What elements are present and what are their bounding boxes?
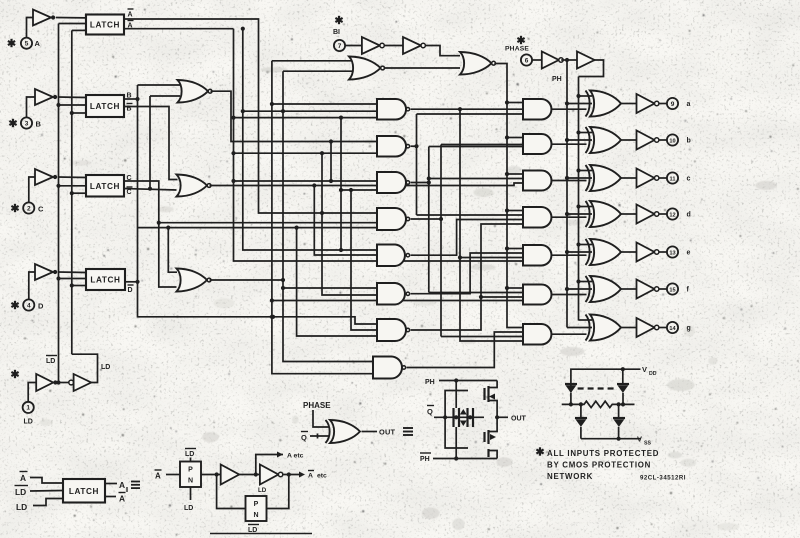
inverter PHASE first <box>542 52 563 69</box>
wire NOR1 output <box>384 67 461 69</box>
wire bus from C-bar vertical <box>149 96 151 189</box>
svg-text:PHASE: PHASE <box>505 46 529 53</box>
wire BI pin to inverter <box>345 45 362 47</box>
wire NOR1 input top <box>272 60 352 62</box>
wire latch A LD input <box>72 29 86 31</box>
nand gate 6 <box>377 283 410 305</box>
nor gate C <box>177 175 212 197</box>
wire input LD pin to inverter <box>28 383 36 402</box>
svg-text:g: g <box>687 325 691 332</box>
wire latch eq output A-bar <box>105 487 127 504</box>
wire PH bus <box>578 77 580 321</box>
label C-bar output <box>127 187 133 196</box>
svg-text:PHASE: PHASE <box>303 401 331 410</box>
svg-text:b: b <box>687 138 691 145</box>
xor gate segment e <box>586 239 622 265</box>
wire PHASE buffer loop <box>579 60 604 77</box>
svg-text:LD: LD <box>185 451 194 458</box>
buffer 1 latch eq <box>221 465 240 485</box>
wire inverter a to pin <box>660 103 668 105</box>
wire OUT tgate <box>495 415 527 422</box>
equivalence sign latch <box>131 482 140 489</box>
svg-text:DD: DD <box>649 371 657 377</box>
wire inverter b to pin <box>660 139 668 141</box>
wire input C pin to inverter <box>29 177 35 202</box>
inverter output e <box>637 243 659 262</box>
asterisk PHASE <box>517 36 524 44</box>
wire inverter D to latch D <box>58 271 86 274</box>
and gate segment g <box>523 324 551 345</box>
nand gate 8 <box>373 357 406 379</box>
wire bus vertical x283 <box>281 71 377 361</box>
pin 5 input A <box>21 38 41 49</box>
label PH <box>552 76 562 83</box>
latch A <box>86 15 124 35</box>
svg-text:LD: LD <box>46 358 55 365</box>
svg-text:d: d <box>687 212 691 219</box>
svg-text:LATCH: LATCH <box>69 487 99 496</box>
wire XOR-c phase stubs <box>565 168 592 180</box>
label PH tgate <box>425 379 435 386</box>
label B-bar output <box>127 104 133 113</box>
wire Q-bar line tgate <box>434 415 484 419</box>
latch D <box>86 269 125 290</box>
label LD latch eq <box>16 502 27 512</box>
svg-text:LATCH: LATCH <box>90 276 120 285</box>
wire bus vertical x351 <box>349 188 377 330</box>
label Q-bar tgate <box>427 406 434 417</box>
svg-text:C: C <box>38 205 44 214</box>
wire inverter A to latch A <box>56 17 86 19</box>
svg-text:LATCH: LATCH <box>90 182 120 191</box>
svg-text:c: c <box>687 176 691 183</box>
wire XOR-a phase stubs <box>565 94 592 106</box>
wire NOR-C output long <box>210 183 524 188</box>
wire NAND6 output net <box>411 253 523 294</box>
svg-text:12: 12 <box>669 212 675 218</box>
asterisk input LD <box>11 370 18 378</box>
wire XOR-b to inverter <box>621 139 637 141</box>
label OUT <box>379 428 395 437</box>
pin 13 output e <box>667 246 691 257</box>
protection diode bottom left <box>575 404 587 438</box>
wire VSS rail <box>581 437 641 441</box>
svg-text:N: N <box>188 478 193 485</box>
label LD-bar latch eq <box>15 486 29 498</box>
pmos transistor tgate <box>485 381 498 418</box>
xor gate segment d <box>586 201 622 227</box>
wire AND-f to XOR <box>551 294 586 296</box>
note line 2 <box>547 461 651 470</box>
inverter output f <box>637 280 659 299</box>
label PHASE <box>505 46 529 53</box>
svg-text:PH: PH <box>552 76 562 83</box>
wire latch A LD-bar input <box>59 23 87 25</box>
svg-text:etc: etc <box>317 473 327 480</box>
wire latch B LD input <box>72 112 86 114</box>
svg-text:A: A <box>20 473 26 483</box>
svg-text:15: 15 <box>669 287 675 293</box>
label PHASE bottom <box>303 401 331 410</box>
pin 4 input D <box>23 299 44 310</box>
svg-text:LD: LD <box>15 487 26 497</box>
wire Q-bar into XOR eq <box>310 434 329 439</box>
svg-text:P: P <box>188 467 193 474</box>
wire tgate left loop <box>445 391 468 449</box>
pin 7 input BI <box>334 40 345 51</box>
wire XOR-g phase stubs <box>567 320 592 328</box>
wire NAND4 input bottom long <box>138 226 378 230</box>
PN box 1 <box>180 462 201 488</box>
label LD-bar above PN1 <box>185 449 196 459</box>
svg-text:PH: PH <box>420 456 430 463</box>
pin 14 output g <box>667 322 691 333</box>
nor gate B <box>178 80 213 103</box>
wire NAND7 output net <box>411 224 523 330</box>
pin 9 output a <box>667 98 691 109</box>
wire PN1 bottom stub <box>190 487 192 500</box>
svg-text:ALL INPUTS PROTECTED: ALL INPUTS PROTECTED <box>547 449 659 458</box>
wire latch eq output A <box>105 480 125 490</box>
wire NAND2 input bottom <box>231 151 377 155</box>
wire bus vertical x322 <box>320 151 377 295</box>
svg-text:A: A <box>155 472 161 481</box>
wire NAND3 output net <box>411 147 523 293</box>
wire BI inverters <box>385 45 404 47</box>
wire inverter c to pin <box>660 177 668 179</box>
asterisk input C <box>11 204 18 212</box>
wire NAND4 input mid long <box>159 222 377 224</box>
wire LD inverter junction <box>58 382 69 384</box>
nand gate 3 <box>377 172 410 193</box>
protection diode top left <box>565 384 577 404</box>
wire PH-bar bus <box>566 60 568 328</box>
svg-text:Q: Q <box>301 433 307 442</box>
wire PHASE pin to inverter <box>532 59 542 61</box>
svg-text:LD: LD <box>24 419 33 426</box>
svg-text:P: P <box>254 501 259 508</box>
wire latch C output C-bar <box>124 187 177 191</box>
and gate segment a <box>523 99 551 120</box>
asterisk input D <box>11 301 18 309</box>
inverter PHASE second <box>577 52 595 69</box>
svg-text:11: 11 <box>670 176 676 182</box>
svg-text:D: D <box>128 287 133 294</box>
and gate segment c <box>523 171 552 191</box>
svg-text:10: 10 <box>669 138 675 144</box>
wire PN1 top stub <box>190 458 192 462</box>
label Q-bar <box>301 432 308 443</box>
wire PN2 feedback left <box>217 475 246 509</box>
label VDD <box>642 365 657 377</box>
svg-text:NETWORK: NETWORK <box>547 472 593 481</box>
equivalence sign XOR <box>403 428 413 435</box>
wire NAND1 output net <box>411 107 523 341</box>
and gate segment e <box>523 245 551 266</box>
svg-text:A: A <box>308 473 313 480</box>
svg-text:LD: LD <box>258 487 267 494</box>
label LD-bar below PN2 <box>248 525 259 535</box>
wire latch D LD-bar input <box>59 278 87 280</box>
pin 3 input B <box>21 117 42 128</box>
wire PN input <box>166 474 180 476</box>
label A-bar output <box>128 21 134 30</box>
label A-bar PN input <box>155 470 162 481</box>
svg-text:BI: BI <box>333 29 340 36</box>
wire BI to NOR2 <box>426 46 460 56</box>
latch B <box>86 95 124 117</box>
and gate segment d <box>523 207 551 228</box>
wire NAND4 output net <box>411 145 523 337</box>
svg-text:BY CMOS PROTECTION: BY CMOS PROTECTION <box>547 461 651 470</box>
label D-bar output <box>128 285 134 294</box>
wire NOR2 output blanking <box>494 64 523 328</box>
wire LD-bar bus <box>56 24 60 385</box>
nand gate 2 <box>377 136 410 157</box>
wire NOR-B output <box>211 91 378 141</box>
wire latch C LD input <box>72 192 86 194</box>
inverter output b <box>637 131 659 150</box>
wire AND-e to XOR <box>551 254 586 256</box>
transmission gate bars <box>454 408 474 427</box>
svg-text:OUT: OUT <box>511 416 527 423</box>
inverter output d <box>637 205 659 224</box>
nand gate 5 <box>377 245 410 267</box>
svg-text:e: e <box>687 250 691 257</box>
svg-text:A: A <box>119 480 125 490</box>
svg-text:OUT: OUT <box>379 428 395 437</box>
xor gate segment a <box>586 91 622 117</box>
svg-text:Q: Q <box>427 407 433 416</box>
wire XOR-g to inverter <box>621 327 637 329</box>
inverter LD second <box>74 374 92 391</box>
wire AND-b to XOR <box>551 143 586 145</box>
svg-text:6: 6 <box>525 57 529 64</box>
wire AND-g to XOR <box>551 333 586 335</box>
svg-text:V: V <box>642 365 647 374</box>
wire NAND1 input bottom <box>234 117 378 119</box>
wire XOR-b phase stubs <box>565 130 592 142</box>
xor equivalent gate <box>326 420 361 443</box>
buffer 2 latch eq <box>260 465 283 485</box>
svg-text:LD: LD <box>16 502 27 512</box>
wire inverter e to pin <box>660 251 668 253</box>
nand gate 7 <box>377 319 410 341</box>
bottom rule line <box>210 533 312 535</box>
label LD-bar <box>46 356 57 366</box>
wire LD buffer loop <box>72 354 98 382</box>
wire VDD rail <box>571 367 641 392</box>
inverter C input buffer <box>35 169 57 185</box>
wire PN2 feedback right <box>267 475 289 509</box>
nor gate 2 <box>460 52 496 75</box>
pin 6 input PHASE <box>521 54 532 65</box>
inverter BI first <box>362 37 384 54</box>
nand gate 4 <box>377 208 410 230</box>
wire latch D LD input <box>72 285 86 287</box>
wire NAND6 input top <box>283 287 377 289</box>
label PH-bar tgate <box>420 453 431 463</box>
latch equivalent box <box>63 479 105 503</box>
nmos transistor tgate <box>485 417 498 458</box>
wire bus vertical x296 <box>295 226 378 337</box>
dashed link protection <box>578 387 617 389</box>
wire NOR1 input bottom <box>283 70 352 72</box>
inverter D input buffer <box>35 264 57 280</box>
note line 1 <box>547 449 659 458</box>
inverter LD first <box>36 374 57 391</box>
svg-text:92CL-34512RI: 92CL-34512RI <box>640 475 686 482</box>
wire buffer2 output <box>283 471 327 480</box>
label VSS <box>637 435 651 447</box>
drawing number <box>640 475 686 482</box>
wire latch B output B to NOR gate <box>124 98 138 100</box>
pin 15 output f <box>667 283 690 294</box>
wire NAND1 input top <box>272 103 377 105</box>
inverter B input buffer <box>35 89 57 105</box>
pin 2 input C <box>23 202 44 213</box>
svg-text:A etc: A etc <box>287 453 304 460</box>
svg-text:A: A <box>119 494 125 504</box>
wire NAND2 output net <box>411 114 523 215</box>
wire latch A output A <box>124 19 377 213</box>
label A output <box>128 9 134 19</box>
wire inverter C to latch C <box>58 176 86 179</box>
wire NOR-B input from C-bar <box>150 95 180 97</box>
wire OR-D input upper <box>168 228 177 273</box>
svg-text:1: 1 <box>26 405 30 412</box>
svg-text:2: 2 <box>27 205 31 212</box>
wire XOR-c to inverter <box>621 177 637 179</box>
nand gate 1 <box>377 99 410 120</box>
wire AND-a to XOR <box>551 108 586 110</box>
svg-text:4: 4 <box>27 302 31 309</box>
label LD buffer output <box>101 364 110 371</box>
wire NOR-D output <box>210 278 286 282</box>
wire XOR eq output <box>362 431 378 433</box>
wire latch eq input A-bar <box>30 478 63 484</box>
inverter BI second <box>403 37 425 54</box>
svg-text:7: 7 <box>338 43 342 50</box>
pin 11 output c <box>667 172 691 183</box>
wire XOR-f to inverter <box>621 288 637 290</box>
label B output <box>127 93 132 100</box>
wire bus vertical x272 <box>270 61 377 374</box>
wire input D pin to inverter <box>29 272 35 299</box>
wire AND-f feed long <box>272 300 523 302</box>
svg-text:B: B <box>36 120 42 129</box>
wire latch B LD-bar input <box>59 104 87 106</box>
wire PH line tgate <box>439 378 497 382</box>
wire latch A output A-bar <box>124 27 377 250</box>
wire inverter f to pin <box>660 288 668 290</box>
wire XOR-d phase stubs <box>565 204 592 216</box>
wire bus vertical x331 <box>329 139 333 183</box>
wire AND-d to XOR <box>551 216 586 218</box>
wire LD bus <box>70 30 74 354</box>
wire NOR-B input from B <box>138 84 181 86</box>
wire A etc tap <box>256 452 304 475</box>
asterisk input B <box>9 119 16 127</box>
wire latch C LD-bar input <box>59 185 87 187</box>
wire XOR-e phase stubs <box>565 242 592 254</box>
wire latch B output B-bar <box>124 107 178 180</box>
note line 3 <box>547 472 593 481</box>
xor gate segment g <box>586 315 622 341</box>
svg-text:V: V <box>637 435 642 444</box>
asterisk input A <box>8 39 15 47</box>
wire PH-bar line tgate <box>433 456 497 460</box>
latch C <box>86 175 124 197</box>
wire NAND8 output net <box>407 332 523 368</box>
svg-text:LATCH: LATCH <box>90 102 120 111</box>
wire PN1 output <box>201 472 221 476</box>
xor gate segment f <box>586 276 622 302</box>
wire bus vertical x314 <box>314 186 377 256</box>
svg-text:9: 9 <box>671 101 675 108</box>
wire latch eq input LD <box>33 499 63 506</box>
svg-text:LD: LD <box>184 505 193 512</box>
inverter A input buffer <box>33 10 55 26</box>
inverter output a <box>637 94 659 113</box>
protection diode top right <box>617 369 629 404</box>
asterisk BI <box>335 16 342 24</box>
svg-text:13: 13 <box>669 250 675 256</box>
svg-text:SS: SS <box>644 441 651 447</box>
label C output <box>127 175 132 182</box>
nor gate 1 <box>349 57 385 80</box>
wire bus B vertical <box>135 85 377 324</box>
svg-text:14: 14 <box>669 326 676 332</box>
svg-text:LD: LD <box>101 364 110 371</box>
svg-text:D: D <box>38 302 44 311</box>
wire latch eq input LD-bar <box>30 490 63 493</box>
protection diode bottom right <box>613 404 625 438</box>
svg-text:A: A <box>128 12 133 19</box>
xor gate segment c <box>586 165 622 191</box>
wire NAND3 input top long <box>234 180 378 182</box>
pin 10 output b <box>667 134 691 145</box>
wire latch D output D-bar <box>125 281 138 283</box>
inverter output g <box>637 318 659 337</box>
wire AND-c to XOR <box>551 180 586 182</box>
wire latch C output C <box>124 181 177 287</box>
wire XOR-f phase stubs <box>565 279 592 291</box>
pin 1 input LD <box>23 402 34 426</box>
wire inverter g to pin <box>660 327 668 329</box>
pin 12 output d <box>667 208 691 219</box>
wire PH-bar node <box>561 58 577 62</box>
inverter output c <box>637 169 659 188</box>
wire NAND5 output net <box>411 220 523 256</box>
svg-text:LATCH: LATCH <box>90 21 120 30</box>
wire NAND1 input mid <box>241 109 377 113</box>
wire bus vertical x233 <box>231 29 523 261</box>
svg-text:3: 3 <box>25 120 29 127</box>
and gate segment b <box>523 134 552 154</box>
wire XOR-e to inverter <box>621 251 637 253</box>
svg-text:a: a <box>687 101 691 108</box>
label BI <box>333 29 340 36</box>
wire input A pin to inverter <box>27 18 34 38</box>
wire PHASE into XOR eq <box>313 410 329 427</box>
label LD below PN1 <box>184 505 193 512</box>
wire XOR-a to inverter <box>621 103 637 105</box>
inverter LD second input bubble <box>69 380 74 385</box>
svg-text:5: 5 <box>25 41 29 48</box>
asterisk note <box>536 447 543 455</box>
wire XOR-d to inverter <box>621 213 637 215</box>
